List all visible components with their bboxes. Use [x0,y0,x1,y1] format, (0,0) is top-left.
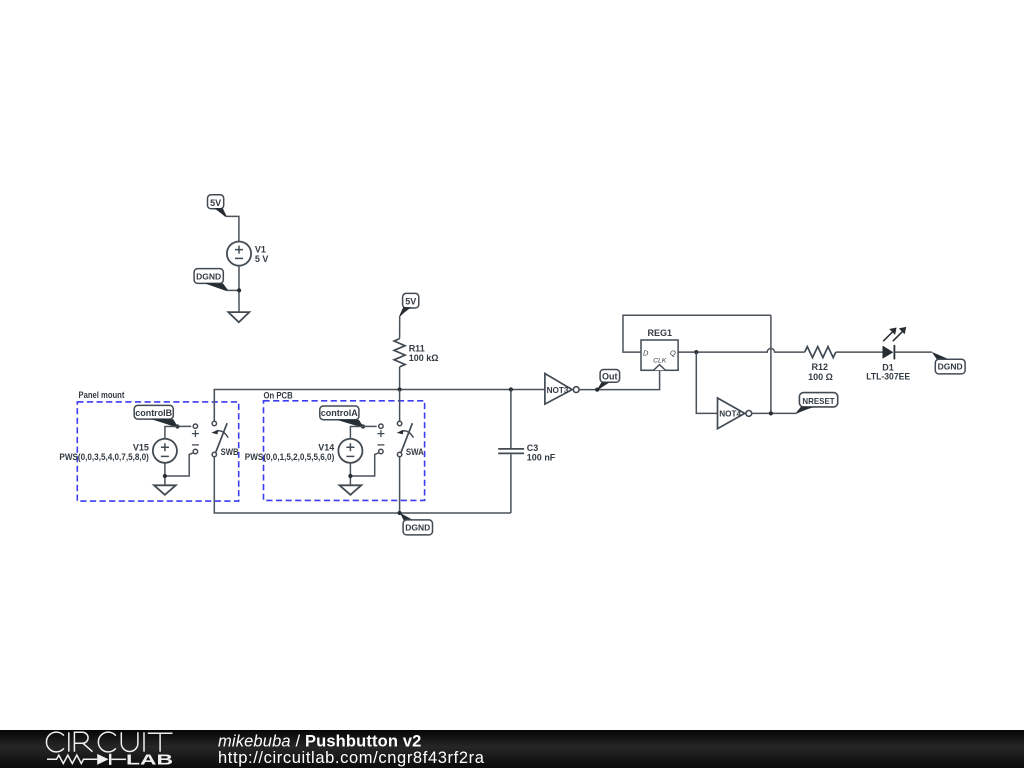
svg-text:NOT4: NOT4 [719,410,741,419]
wire 5V flag to V1 plus [226,216,239,241]
ground symbol (V15) [154,485,176,495]
wire V14 plus terminal [350,426,376,438]
On PCB enclosure box [264,390,425,500]
wire 5V flag to R11 [399,316,401,339]
label R11 100 kOhm [409,343,439,363]
wire V1 minus to ground [238,266,240,312]
svg-text:5V: 5V [210,198,221,208]
svg-text:SWB: SWB [221,447,239,457]
wire SWA top [399,390,401,422]
net flag Out [597,370,619,391]
svg-text:100 nF: 100 nF [527,452,556,462]
net flag 5V (R11 pull-up) [399,293,418,316]
inverter NOT4 [718,398,752,429]
svg-text:100 Ω: 100 Ω [808,372,833,382]
net flag controlB [134,405,178,427]
net flag 5V (V1 supply) [208,195,227,217]
svg-text:mikebuba / Pushbutton v2: mikebuba / Pushbutton v2 [218,733,422,751]
svg-text:LTL-307EE: LTL-307EE [866,371,910,381]
Panel mount enclosure box [77,390,238,501]
svg-text:PWS(0,0,1,5,2,0,5,5,6,0): PWS(0,0,1,5,2,0,5,5,6,0) [245,452,335,462]
wire C3 bottom [510,454,512,513]
D flip-flop REG1 [641,340,678,370]
net flag DGND (V1) [194,269,239,291]
voltage source V14 (PWS) [338,424,384,463]
LED D1 [883,327,907,360]
wire D1 to DGND [894,351,932,353]
svg-text:V14: V14 [318,442,334,452]
svg-text:DGND: DGND [938,362,963,372]
junction controlA anchor [361,424,365,428]
svg-text:REG1: REG1 [648,328,673,338]
ground symbol (V14) [340,485,362,495]
label R12 100 Ohm [808,362,833,382]
svg-text:DGND: DGND [196,272,221,282]
svg-text:Out: Out [602,371,618,381]
svg-text:On PCB: On PCB [264,390,294,400]
junction V15 ground node [163,474,167,478]
wire Q to NOT4 input [696,352,717,413]
switch SWA [397,421,414,456]
svg-text:DGND: DGND [405,523,430,533]
svg-text:PWS(0,0,3,5,4,0,7,5,8,0): PWS(0,0,3,5,4,0,7,5,8,0) [59,452,149,462]
CircuitLab logo resistor-diode glyph [47,754,126,765]
wire V14 minus loop [350,453,378,476]
voltage source V1 [227,242,251,266]
net flag controlA [320,406,364,427]
svg-text:V15: V15 [133,442,149,452]
label V15 PWS [59,442,149,462]
svg-text:NOT3: NOT3 [547,386,569,395]
net flag DGND (bottom bus) [400,513,433,535]
label V14 PWS [245,442,335,462]
wire REG1 D feedback (top rail) [623,315,771,352]
wire SWA bottom [399,457,401,513]
wire NOT4 output [752,412,797,414]
label C3 100 nF [527,443,556,462]
svg-text:SWA: SWA [406,447,424,457]
label V1 5 V [255,244,269,264]
wire feedback vertical [770,315,772,413]
svg-text:controlA: controlA [321,408,358,418]
net flag NRESET [796,393,838,414]
wire R12 to D1 [836,351,883,353]
junction controlB anchor [175,424,179,428]
switch SWB [211,421,228,456]
resistor R11 [394,339,405,367]
svg-text:D: D [643,348,649,357]
wire REG1 Q output with hop [678,348,805,352]
wire top bus [214,390,545,424]
inverter NOT3 [545,374,579,405]
junction Q node [694,350,698,354]
wire V15 plus terminal [165,426,191,438]
svg-text:R11: R11 [409,343,425,353]
wire R11 bottom to bus [399,367,401,390]
voltage source V15 (PWS) [153,424,199,463]
svg-text:controlB: controlB [135,408,172,418]
ground symbol (V1) [228,312,249,322]
junction V1-ground node [237,288,241,292]
svg-text:CLK: CLK [653,357,667,364]
junction Out anchor [595,388,599,392]
wire V15 minus loop [165,453,193,476]
wire V14 bottom [349,463,351,485]
svg-text:5V: 5V [405,297,416,307]
svg-text:Panel mount: Panel mount [79,390,125,400]
net flag DGND (LED) [932,352,965,374]
svg-text:LAB: LAB [126,753,173,768]
capacitor C3 [498,449,524,454]
svg-text:Q: Q [670,348,676,357]
wire V15 bottom [164,463,166,485]
junction NOT4 output / feedback [769,411,773,415]
label D1 LTL-307EE [866,362,910,381]
svg-text:NRESET: NRESET [802,396,835,406]
svg-text:5 V: 5 V [255,254,269,264]
svg-text:V1: V1 [255,244,266,254]
junction V14 ground node [348,474,352,478]
wire NOT3 output to REG1 CLK [579,370,659,389]
svg-text:R12: R12 [812,362,829,372]
CircuitLab logo wordmark CIRCUIT [46,732,172,752]
svg-text:100 kΩ: 100 kΩ [409,353,439,363]
junction bottom bus DGND node [398,511,402,515]
wire SWB bottom to bus [214,457,511,513]
wire SWB top [213,390,215,422]
wire C3 top [510,390,512,449]
junction R11/SWA/bus [398,387,402,391]
junction C3/bus [509,387,513,391]
svg-text:http://circuitlab.com/cngr8f43: http://circuitlab.com/cngr8f43rf2ra [218,749,485,767]
resistor R12 [805,347,836,358]
